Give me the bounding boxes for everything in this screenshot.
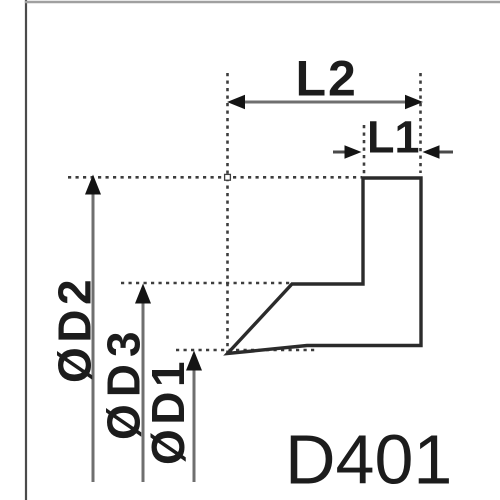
svg-text:ØD2: ØD2 <box>49 275 101 383</box>
extension line for L1 left (short vertical dotted) <box>363 125 366 177</box>
arrowhead L1 left (points right) <box>345 145 362 159</box>
svg-text:ØD1: ØD1 <box>142 357 194 465</box>
dimension line L2 <box>236 101 414 104</box>
frame top border <box>25 1 500 4</box>
dimension tail L1 right <box>437 151 453 154</box>
dimension line ØD1 (vertical) <box>193 355 196 482</box>
extension line for ØD3 (horizontal dotted at step) <box>121 282 292 285</box>
extension line for ØD1 (horizontal dotted at tip) <box>176 349 316 352</box>
extension line for L2/L1 right (vertical dotted) <box>419 73 422 173</box>
dimension line ØD3 (vertical) <box>142 288 145 482</box>
arrowhead ØD1 (points up) <box>186 351 202 371</box>
dimension line ØD2 (vertical) <box>92 180 95 482</box>
arrowhead L2 left <box>227 95 245 109</box>
extension line for ØD2 (horizontal dotted at top of die) <box>68 176 362 179</box>
junction marker at D2/L2 extension crossing <box>225 174 231 180</box>
extension line for L2 left / die tip (vertical dotted) <box>226 73 229 355</box>
svg-text:D401: D401 <box>285 421 452 499</box>
arrowhead ØD3 (points up) <box>135 284 151 304</box>
svg-text:L2: L2 <box>296 51 358 107</box>
arrowhead L1 right (points left) <box>423 145 440 159</box>
arrowhead L2 right <box>405 95 423 109</box>
dimension tail L1 left <box>333 151 350 154</box>
arrowhead ØD2 (points up) <box>85 175 101 195</box>
frame left border <box>25 0 27 500</box>
svg-text:L1: L1 <box>367 112 420 163</box>
die profile outline <box>228 178 422 354</box>
